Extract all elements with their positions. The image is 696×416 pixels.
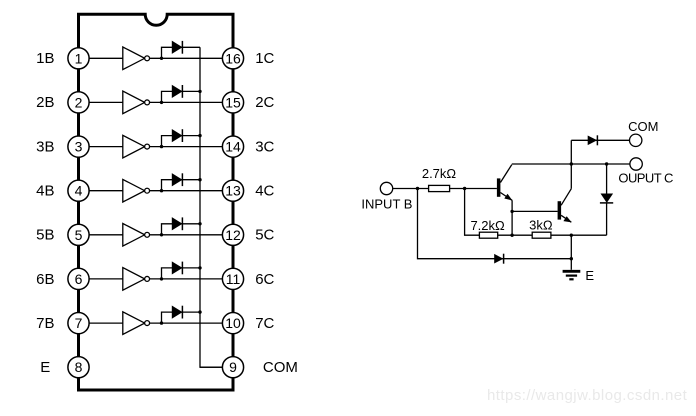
inverter U7 (buffer triangle with bubble)	[123, 312, 150, 335]
wire pin 5 to inverter 5 input	[89, 234, 123, 236]
junction output node row 5	[160, 233, 163, 236]
wire diode branch row 2	[162, 91, 201, 102]
junction bottom diode branch to ground stem	[570, 257, 573, 260]
svg-text:5B: 5B	[36, 227, 54, 244]
junction diode row 6 to COM bus	[198, 266, 201, 269]
inverter U4 (buffer triangle with bubble)	[123, 179, 150, 202]
wire pin 1 to inverter 1 input	[89, 57, 123, 59]
svg-text:5: 5	[75, 227, 83, 243]
wire R3 to ground node	[551, 234, 607, 236]
svg-text:1: 1	[75, 50, 83, 66]
wire diode branch row 7	[162, 312, 201, 323]
svg-text:12: 12	[225, 227, 241, 243]
svg-text:E: E	[40, 359, 50, 376]
wire diode branch row 1	[162, 47, 201, 58]
resistor R2 7.2k	[479, 232, 497, 238]
junction diode row 7 to COM bus	[198, 310, 201, 313]
junction Q1 emitter node	[510, 210, 513, 213]
pin 16	[222, 48, 243, 69]
diode D9 vertical (emitter rail to output rail)	[600, 164, 613, 235]
svg-text:COM: COM	[628, 119, 658, 134]
junction input node	[416, 187, 419, 190]
terminal COM	[630, 134, 642, 146]
svg-text:4: 4	[75, 183, 83, 199]
junction rail x COM vertical	[570, 162, 573, 165]
wire Q2 collector up to COM corner	[570, 140, 572, 188]
svg-text:5C: 5C	[255, 227, 274, 244]
COM bus wire (diode cathodes to pin 9)	[200, 47, 222, 367]
pin 2	[68, 92, 89, 113]
wire inverter 6 output to pin 11	[150, 278, 223, 280]
svg-text:16: 16	[225, 50, 241, 66]
terminal INPUT B	[380, 182, 392, 194]
wire diode branch row 6	[162, 268, 201, 279]
diode D10 (input clamp)	[494, 254, 503, 264]
junction output node row 4	[160, 189, 163, 192]
svg-text:11: 11	[226, 271, 241, 287]
wire pin 7 to inverter 7 input	[89, 322, 123, 324]
pin 8	[68, 357, 89, 378]
wire inverter 3 output to pin 14	[150, 146, 223, 148]
wire bottom diode branch	[418, 189, 572, 259]
IC body DIP-16 outline with notch	[79, 14, 234, 390]
svg-text:3C: 3C	[255, 138, 274, 155]
svg-text:4C: 4C	[255, 183, 274, 200]
svg-text:1B: 1B	[36, 50, 54, 67]
svg-text:6B: 6B	[36, 271, 54, 288]
resistor R3 3k	[532, 232, 551, 238]
junction Q1 base node	[463, 187, 466, 190]
pin 12	[222, 224, 243, 245]
svg-text:6C: 6C	[255, 271, 274, 288]
svg-text:E: E	[585, 268, 594, 283]
svg-text:4B: 4B	[36, 183, 54, 200]
wire inverter 4 output to pin 13	[150, 190, 223, 192]
junction output node row 3	[160, 145, 163, 148]
wire INPUT B to R1	[393, 188, 429, 190]
inverter U1 (buffer triangle with bubble)	[123, 47, 150, 70]
pin 9	[222, 357, 243, 378]
svg-text:7B: 7B	[36, 315, 54, 332]
wire to Q2 base	[512, 210, 558, 212]
wire inverter 7 output to pin 10	[150, 322, 223, 324]
wire R1 to Q1 base	[450, 188, 497, 190]
svg-text:9: 9	[229, 359, 237, 375]
junction diode row 3 to COM bus	[198, 134, 201, 137]
diode D3 (output to COM)	[172, 129, 182, 142]
inverter U5 (buffer triangle with bubble)	[123, 224, 150, 247]
svg-text:2B: 2B	[36, 94, 54, 111]
pin 13	[222, 180, 243, 201]
wire inverter 1 output to pin 16	[150, 57, 223, 59]
transistor Q2	[558, 189, 572, 223]
diode D4 (output to COM)	[172, 173, 182, 186]
wire pin 6 to inverter 6 input	[89, 278, 123, 280]
svg-text:10: 10	[225, 315, 241, 331]
svg-text:3: 3	[75, 139, 83, 155]
svg-text:8: 8	[75, 359, 83, 375]
pin 7	[68, 313, 89, 334]
wire pin 2 to inverter 2 input	[89, 101, 123, 103]
wire Q1 emitter to Q2 base / R2-R3 node	[511, 200, 513, 235]
wire pin 9 stub	[200, 366, 222, 368]
svg-text:OUPUT C: OUPUT C	[618, 170, 673, 185]
pin 15	[222, 92, 243, 113]
svg-text:2: 2	[75, 94, 83, 110]
wire inverter 5 output to pin 12	[150, 234, 223, 236]
diode D8 output to COM	[588, 135, 598, 145]
wire pin 4 to inverter 4 input	[89, 190, 123, 192]
diode D6 (output to COM)	[172, 262, 182, 275]
junction output node row 1	[160, 57, 163, 60]
pin 14	[222, 136, 243, 157]
svg-text:2C: 2C	[255, 94, 274, 111]
junction diode row 5 to COM bus	[198, 222, 201, 225]
diode D1 (output to COM)	[172, 41, 182, 54]
svg-text:1C: 1C	[255, 50, 274, 67]
junction diode row 2 to COM bus	[198, 90, 201, 93]
wire output rail	[512, 163, 630, 165]
svg-text:6: 6	[75, 271, 83, 287]
diode D7 (output to COM)	[172, 306, 182, 319]
junction output node row 6	[160, 277, 163, 280]
svg-text:3B: 3B	[36, 138, 54, 155]
svg-text:7C: 7C	[255, 315, 274, 332]
inverter U6 (buffer triangle with bubble)	[123, 268, 150, 291]
wire COM branch	[571, 139, 629, 141]
pin 5	[68, 224, 89, 245]
svg-text:COM: COM	[263, 359, 298, 376]
svg-text:7.2kΩ: 7.2kΩ	[470, 218, 505, 233]
pin 4	[68, 180, 89, 201]
wire pin 3 to inverter 3 input	[89, 146, 123, 148]
pin 3	[68, 136, 89, 157]
svg-text:INPUT B: INPUT B	[361, 197, 412, 212]
terminal OUPUT C	[630, 158, 642, 170]
svg-text:14: 14	[225, 139, 241, 155]
diode D5 (output to COM)	[172, 217, 182, 230]
ground E symbol	[563, 271, 581, 279]
wire Q1 base node down to R2	[465, 189, 480, 236]
junction diode row 4 to COM bus	[198, 178, 201, 181]
wire emitter rail right corner	[606, 234, 608, 236]
junction output node row 2	[160, 101, 163, 104]
wire diode branch row 5	[162, 224, 201, 235]
diode D2 (output to COM)	[172, 85, 182, 98]
junction emitter rail node	[570, 234, 573, 237]
wire diode branch row 3	[162, 136, 201, 147]
svg-text:3kΩ: 3kΩ	[529, 217, 553, 232]
pin 10	[222, 313, 243, 334]
wire diode branch row 4	[162, 180, 201, 191]
pin 1	[68, 48, 89, 69]
inverter U3 (buffer triangle with bubble)	[123, 135, 150, 158]
wire R2 to R3	[498, 234, 533, 236]
svg-text:2.7kΩ: 2.7kΩ	[422, 166, 457, 181]
wire inverter 2 output to pin 15	[150, 101, 223, 103]
resistor R1 2.7k	[429, 185, 450, 191]
svg-text:7: 7	[75, 315, 83, 331]
svg-text:13: 13	[225, 183, 241, 199]
transistor Q1	[497, 165, 513, 201]
pin 11	[222, 268, 243, 289]
pin 6	[68, 268, 89, 289]
wire ground stem	[570, 235, 572, 270]
junction output node row 7	[160, 321, 163, 324]
junction output diode tap	[605, 162, 608, 165]
junction Q2 base resistor node	[510, 234, 513, 237]
svg-text:15: 15	[225, 94, 241, 110]
inverter U2 (buffer triangle with bubble)	[123, 91, 150, 114]
